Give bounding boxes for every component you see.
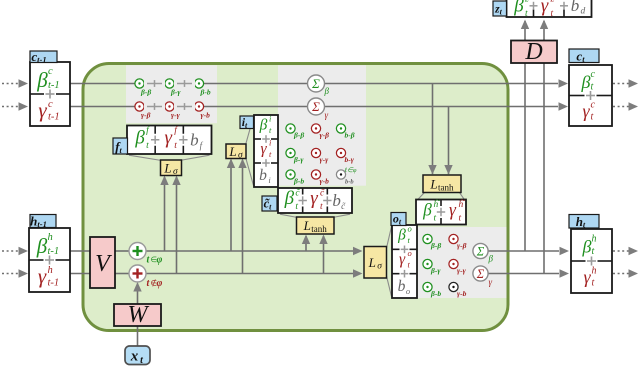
svg-text:~: ~	[436, 196, 441, 206]
wire h-line gamma (plus node to L-sigma-o)	[146, 269, 363, 277]
svg-text:γ: γ	[260, 141, 267, 158]
label z(t)	[493, 1, 507, 17]
block c-tilde weights (beta_c gamma_c b_c)	[278, 188, 352, 213]
funnel L-sigma-o to o-block	[387, 227, 392, 297]
odot forget beta β-β	[135, 79, 151, 97]
svg-text:t: t	[591, 81, 594, 92]
svg-text:γ-γ: γ-γ	[320, 155, 330, 164]
svg-text:β: β	[36, 68, 48, 92]
node plus-gamma (t not in phi)	[129, 265, 163, 289]
svg-text:φ: φ	[157, 278, 163, 289]
svg-text:c: c	[48, 66, 53, 77]
svg-text:Σ: Σ	[311, 99, 320, 114]
funnel L-sigma-i to i-block	[246, 117, 254, 186]
svg-text:γ: γ	[449, 200, 457, 220]
block h-tilde weights (beta_h gamma_h)	[416, 196, 466, 225]
odot input b-β	[336, 124, 354, 140]
odot output γ-γ	[449, 259, 467, 275]
wire riser beta to D	[524, 62, 526, 252]
svg-text:β: β	[134, 127, 145, 148]
dotted input arrow h beta	[2, 247, 28, 255]
svg-text:β-γ: β-γ	[430, 266, 441, 275]
activation L-sigma f	[161, 160, 182, 177]
svg-text:b: b	[571, 0, 580, 15]
svg-text:b: b	[398, 278, 406, 295]
svg-text:h: h	[48, 232, 53, 243]
matrix W	[114, 302, 161, 328]
node Sigma-beta on c-line	[308, 75, 330, 96]
svg-text:t-1: t-1	[48, 246, 60, 257]
funnel c-tilde-box to L-tanh-c	[280, 214, 350, 217]
svg-text:c: c	[48, 99, 53, 110]
block c(t-1) state input	[30, 62, 70, 126]
svg-text:σ: σ	[238, 150, 243, 160]
svg-text:o: o	[408, 224, 412, 234]
LSTM cell container (green rounded box)	[83, 64, 508, 331]
odot output β-b	[423, 282, 441, 298]
svg-text:b: b	[332, 191, 341, 210]
svg-text:γ: γ	[489, 277, 493, 287]
svg-text:t-1: t-1	[48, 80, 60, 91]
input x(t)	[125, 346, 150, 366]
activation L-sigma i	[226, 144, 246, 161]
svg-text:β: β	[259, 117, 268, 134]
gray panel left (forget-gate products)	[126, 65, 217, 123]
svg-text:β: β	[324, 86, 330, 96]
svg-text:β-b: β-b	[430, 289, 441, 298]
svg-text:t-1: t-1	[48, 112, 60, 123]
svg-text:z: z	[524, 0, 529, 5]
svg-text:t: t	[174, 141, 177, 151]
svg-text:t: t	[592, 246, 595, 257]
dotted output arrow c gamma	[613, 102, 638, 110]
svg-text:t: t	[459, 213, 462, 223]
block f gate weights (beta_f gamma_f b_f)	[127, 125, 212, 154]
dotted output arrow h beta	[613, 247, 638, 255]
svg-text:β-γ: β-γ	[293, 155, 304, 164]
svg-text:c: c	[591, 69, 596, 80]
plus mark on c-line	[144, 79, 165, 89]
matrix D	[511, 39, 557, 65]
svg-text:β: β	[422, 200, 432, 220]
dotted output arrow c beta	[613, 79, 638, 87]
wire h-line beta segment V to plus node	[115, 250, 130, 252]
svg-text:c: c	[591, 99, 596, 110]
svg-text:V: V	[95, 251, 112, 277]
label o(t)	[391, 212, 406, 227]
odot forget beta β-b	[194, 79, 210, 97]
svg-text:ℓ∈φ: ℓ∈φ	[344, 167, 357, 174]
svg-text:β: β	[397, 227, 406, 244]
svg-text:γ-b: γ-b	[320, 177, 330, 186]
svg-text:γ-β: γ-β	[320, 131, 330, 140]
svg-text:Σ: Σ	[476, 245, 485, 259]
svg-text:h: h	[592, 234, 597, 245]
svg-text:t: t	[525, 9, 528, 19]
wire branch beta to L-sigma-i	[227, 159, 235, 252]
odot input γ-b	[311, 170, 329, 186]
svg-text:d: d	[581, 7, 586, 17]
wire x(t) to W	[137, 326, 139, 346]
svg-text:h: h	[592, 266, 597, 277]
wire branch gamma to L-sigma-f	[172, 176, 180, 274]
odot output β-β	[423, 234, 441, 250]
svg-text:x: x	[130, 349, 139, 365]
svg-text:γ-β: γ-β	[141, 111, 151, 120]
svg-text:β: β	[36, 234, 48, 258]
svg-text:t: t	[146, 141, 149, 151]
wire drop c-line beta to L-tanh-h	[428, 84, 436, 175]
wire riser gamma to D	[543, 62, 545, 274]
odot output β-γ	[423, 259, 441, 275]
svg-text:β-β: β-β	[293, 131, 304, 140]
wire D to z-box left arrow	[521, 20, 529, 42]
wire branch beta to L-sigma-f	[160, 176, 168, 252]
svg-text:b-β: b-β	[345, 131, 355, 140]
label h(t)	[569, 214, 599, 230]
svg-text:t: t	[591, 111, 594, 122]
dotted input arrow h gamma	[2, 269, 28, 277]
odot input b-γ	[336, 148, 354, 164]
odot input β-b	[286, 170, 304, 186]
svg-text:o: o	[408, 248, 412, 258]
odot input γ-β	[311, 124, 329, 140]
node Sigma-beta output	[473, 243, 494, 263]
svg-text:t: t	[320, 202, 323, 212]
svg-text:β-γ: β-γ	[170, 88, 181, 97]
svg-text:D: D	[524, 39, 542, 65]
gray panel right (output-gate products)	[418, 227, 507, 298]
odot input β-β	[286, 124, 304, 140]
wire c-line gamma (bottom memory line)	[70, 102, 568, 110]
wire branch gamma to L-tanh-c	[319, 235, 327, 274]
odot output γ-β	[449, 234, 467, 250]
svg-text:Σ: Σ	[311, 76, 320, 91]
funnel L-tanh-h to h-tilde-box	[418, 193, 465, 200]
svg-text:γ-γ: γ-γ	[457, 266, 467, 275]
svg-text:β: β	[488, 254, 494, 264]
svg-text:β: β	[284, 188, 295, 209]
svg-text:β-b: β-b	[293, 177, 304, 186]
label c-tilde(t)	[262, 196, 277, 212]
block c(t) state output	[569, 65, 612, 126]
svg-text:β: β	[582, 237, 592, 257]
block h(t-1) hidden input	[29, 228, 70, 292]
svg-text:L: L	[368, 255, 376, 270]
activation L-tanh h-tilde	[423, 175, 461, 193]
block z output weights (beta_z gamma_z b_d)	[507, 0, 592, 19]
dotted input arrow c beta	[2, 79, 28, 87]
block h(t) hidden output	[571, 229, 612, 293]
odot forget gamma γ-b	[194, 102, 210, 120]
svg-text:γ: γ	[310, 188, 318, 209]
svg-text:z: z	[550, 0, 555, 5]
wire drop c-line gamma to L-tanh-h	[444, 107, 452, 175]
dotted output arrow h gamma	[613, 269, 638, 277]
label c(t-1)	[30, 49, 57, 65]
svg-text:β-b: β-b	[200, 88, 211, 97]
svg-text:β: β	[513, 0, 524, 17]
svg-text:γ: γ	[165, 127, 173, 148]
node Sigma-gamma output	[473, 266, 493, 287]
svg-text:b: b	[190, 130, 199, 149]
wire sigma-beta output to h(t)	[489, 247, 570, 255]
matrix V	[90, 237, 115, 288]
activation L-sigma o	[364, 247, 387, 279]
svg-text:φ: φ	[157, 255, 163, 266]
wire h-line gamma segment h(t-1) to V	[70, 273, 90, 275]
svg-text:t: t	[551, 9, 554, 19]
svg-text:β: β	[581, 72, 591, 92]
label h(t-1)	[30, 214, 56, 230]
odot forget gamma γ-γ	[165, 102, 181, 120]
odot input γ-γ	[311, 148, 329, 164]
dotted input arrow c gamma	[2, 102, 28, 110]
svg-text:L: L	[228, 144, 236, 159]
svg-text:b-b: b-b	[345, 179, 354, 186]
wire h-line beta (plus node to L-sigma-o)	[146, 247, 363, 255]
gray panel middle (input-gate products)	[278, 65, 366, 186]
odot input b-b	[336, 167, 356, 186]
svg-text:L: L	[163, 160, 171, 175]
svg-text:γ: γ	[38, 264, 47, 288]
odot forget beta β-γ	[165, 79, 181, 97]
svg-text:t: t	[592, 278, 595, 289]
wire W to plus-gamma node	[133, 282, 141, 304]
svg-text:γ-β: γ-β	[457, 241, 467, 250]
block o gate weights (beta_o gamma_o b_o)	[392, 224, 417, 298]
svg-text:t: t	[434, 213, 437, 223]
wire c-line beta (top memory line)	[70, 79, 568, 87]
block i gate weights (beta_i gamma_i b_i)	[254, 114, 278, 188]
svg-text:β-β: β-β	[140, 88, 151, 97]
wire branch gamma to L-sigma-i	[238, 159, 246, 274]
svg-text:tanh: tanh	[438, 182, 454, 192]
svg-text:γ: γ	[582, 101, 590, 121]
svg-text:t-1: t-1	[48, 278, 60, 289]
wire h-line gamma segment V to plus node	[115, 273, 130, 275]
svg-text:γ: γ	[325, 110, 329, 120]
svg-text:h: h	[48, 265, 53, 276]
svg-text:L: L	[303, 218, 311, 233]
svg-text:σ: σ	[173, 167, 178, 177]
node Sigma-gamma on c-line	[308, 98, 329, 120]
wire branch beta to L-tanh-c	[302, 235, 310, 252]
svg-text:γ: γ	[38, 98, 47, 122]
svg-text:γ: γ	[399, 251, 406, 268]
wire sigma-gamma output to h(t)	[488, 269, 569, 277]
label c(t)	[569, 49, 599, 65]
odot forget gamma γ-β	[135, 102, 151, 120]
plus mark on c-line	[174, 102, 195, 112]
plus mark on c-line	[174, 79, 195, 89]
label i(t)	[240, 115, 254, 130]
svg-text:t: t	[295, 202, 298, 212]
odot input β-γ	[286, 148, 304, 164]
svg-text:W: W	[128, 302, 150, 328]
label f(t)	[113, 138, 128, 155]
svg-text:b-γ: b-γ	[345, 155, 355, 164]
wire D to z-box right arrow	[540, 20, 548, 42]
node plus-beta (t in phi)	[129, 243, 163, 266]
odot output γ-b	[449, 282, 467, 298]
svg-text:Σ: Σ	[476, 267, 485, 281]
svg-text:γ-b: γ-b	[201, 111, 211, 120]
wire h-line beta segment h(t-1) to V	[70, 250, 90, 252]
svg-text:L: L	[429, 176, 437, 191]
svg-text:o: o	[406, 286, 410, 296]
svg-text:tanh: tanh	[311, 224, 327, 234]
svg-text:β-β: β-β	[430, 241, 441, 250]
svg-text:b: b	[259, 167, 267, 184]
svg-text:γ-γ: γ-γ	[171, 111, 181, 120]
svg-text:~: ~	[461, 196, 466, 206]
svg-text:γ: γ	[583, 267, 591, 287]
svg-text:σ: σ	[377, 261, 382, 271]
activation L-tanh c-tilde	[297, 217, 335, 234]
plus mark on c-line	[144, 102, 165, 112]
svg-text:γ-b: γ-b	[457, 289, 467, 298]
funnel f-box to L-sigma-f	[129, 155, 210, 160]
svg-text:γ: γ	[541, 0, 549, 17]
